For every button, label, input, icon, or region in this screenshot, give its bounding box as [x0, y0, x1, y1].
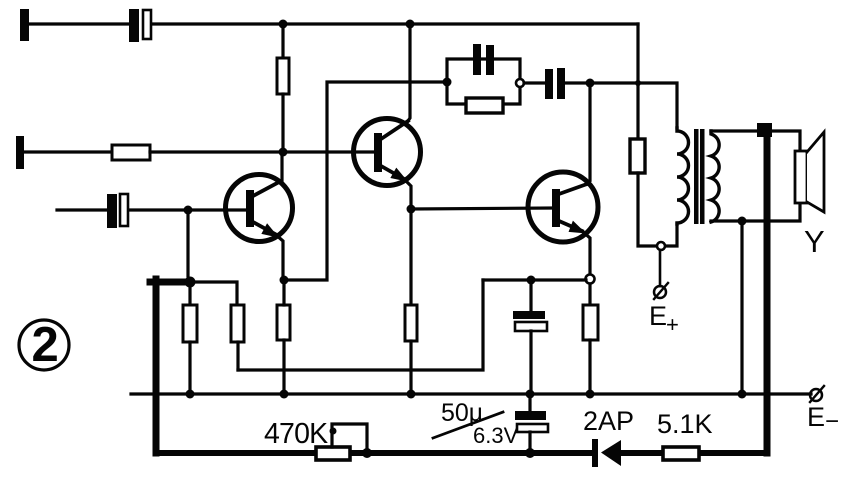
wire secondary bottom to speaker: [711, 203, 800, 221]
input terminal J2: [16, 136, 24, 169]
svg-text:+: +: [666, 312, 679, 337]
node top rail / R3 collector branch: [279, 20, 288, 29]
svg-text:E: E: [807, 402, 825, 432]
resistor R7: [583, 305, 598, 340]
node B2: [279, 148, 288, 157]
wire C6 top lead: [528, 396, 531, 411]
wire top supply rail: [152, 22, 638, 25]
wire R5 bottom lead: [188, 342, 191, 394]
wire C5 top lead: [529, 280, 532, 311]
wire emitter bus: [483, 278, 586, 281]
wire Q2 emitter to Q3 base: [411, 208, 553, 209]
node Q3 emitter (open): [586, 275, 595, 284]
resistor R10 470K: [316, 447, 350, 460]
wire R1 bottom to emitter bus: [236, 342, 239, 370]
wire Q2 collector up to rail: [408, 24, 410, 121]
speaker Y: [795, 132, 824, 212]
wire J2 to R2: [24, 150, 112, 153]
resistor R11 5.1K: [663, 447, 699, 460]
terminal E-: [810, 386, 824, 402]
label E-: [807, 402, 839, 435]
resistor R8: [466, 98, 503, 113]
capacitor C6: [515, 411, 548, 432]
wire Q3 emitter down: [582, 231, 590, 275]
figure number circle 2: [19, 318, 69, 372]
resistor R3: [277, 58, 289, 94]
wire node C to transformer primary: [590, 83, 677, 128]
resistor R4: [277, 305, 290, 340]
resistor R9: [630, 139, 645, 173]
transformer T1 core: [694, 129, 705, 224]
wire bold line speaker to bottom rail: [764, 132, 771, 453]
capacitor C3: [473, 44, 494, 75]
wire node to C4: [524, 81, 545, 84]
wire node down to R6: [409, 209, 412, 305]
wire R3 bottom to node B2: [281, 94, 284, 152]
capacitor C5: [513, 311, 547, 331]
wire RC network frame: [447, 59, 520, 104]
capacitor C2: [107, 194, 128, 228]
node R4 ground: [280, 390, 289, 399]
wire Q1 emitter feedback up branch: [283, 82, 447, 280]
node feedback junction: [185, 277, 196, 288]
wire C6 bottom lead: [528, 432, 531, 451]
resistor R5: [183, 305, 197, 342]
wire J1 to C1: [29, 22, 130, 25]
resistor R1: [231, 305, 244, 342]
wire R9 bottom to primary bottom: [638, 173, 677, 246]
capacitor C4: [545, 68, 565, 99]
wire R6 to ground rail: [409, 341, 412, 394]
transformer T1 primary winding: [677, 128, 689, 224]
transistor Q1: [226, 175, 293, 242]
wire R7 to ground rail: [588, 340, 591, 394]
node rail crossing: [635, 80, 641, 86]
wire emitter bus left corner down: [238, 280, 483, 370]
node E+ tap (open): [657, 242, 665, 250]
node RC network left: [443, 78, 452, 87]
node RC network right (open): [516, 79, 524, 87]
node secondary bottom: [738, 217, 747, 226]
label 50u 6.3V: [441, 399, 519, 448]
node loop right on rail: [362, 448, 372, 458]
node Q1 base / R5 divider: [184, 206, 193, 215]
node loop left: [330, 428, 337, 435]
wire R4 leads: [282, 280, 285, 394]
wire E+ lead: [659, 250, 662, 286]
wire R5 top lead: [188, 287, 191, 305]
resistor R6: [405, 305, 417, 341]
wire input 3 lead: [57, 208, 107, 211]
label E+: [649, 301, 679, 337]
wire secondary top to speaker: [711, 131, 800, 151]
wire Q2 emitter down: [404, 179, 411, 209]
node Q2 emitter: [407, 205, 416, 214]
wire node to R1 divider: [196, 282, 237, 305]
svg-text:5.1K: 5.1K: [657, 409, 713, 439]
diode D1: [592, 439, 621, 467]
wire rail corner down to R9: [636, 24, 639, 139]
capacitor C1: [129, 9, 151, 42]
wire C2 to Q1 base: [129, 208, 246, 211]
wire thick feedback vertical: [153, 279, 160, 453]
node ground R6: [407, 390, 416, 399]
wire node to R7: [588, 284, 591, 305]
node C5 top: [527, 276, 536, 285]
terminal E+: [654, 283, 668, 299]
svg-text:E: E: [649, 301, 667, 331]
wire R2 to node B2: [150, 150, 283, 153]
svg-text:6.3V: 6.3V: [473, 423, 519, 448]
wire R10 bypass loop: [332, 424, 367, 450]
wire Q1 emitter down: [275, 234, 283, 280]
wire C4 to node C: [565, 81, 590, 84]
divider slash: [433, 412, 503, 438]
transistor Q2: [354, 119, 421, 186]
node ground rail right: [738, 390, 747, 399]
wire node B2 down to Q1 collector: [280, 152, 283, 181]
svg-text:Y: Y: [804, 224, 825, 259]
wire Q3 collector up to node C: [587, 83, 590, 184]
wire ground rail: [131, 392, 811, 395]
input terminal J1: [20, 9, 29, 41]
node C6 rail: [525, 448, 535, 458]
node C: [586, 79, 595, 88]
transistor Q3: [528, 172, 598, 242]
svg-text:2: 2: [32, 318, 59, 372]
wire thick feedback stub: [150, 279, 184, 286]
wire R3 top lead: [281, 24, 284, 58]
node Q1 emitter / R4: [280, 276, 289, 285]
node ground R7: [586, 390, 595, 399]
node top rail / Q2 collector: [406, 20, 415, 29]
wire node B2 to Q2 base: [283, 150, 374, 153]
wire node down toward thick feedback node: [186, 210, 189, 276]
wire thick bottom rail: [156, 450, 766, 456]
wire node down to ground rail: [740, 221, 743, 394]
svg-text:2AP: 2AP: [583, 406, 634, 436]
node ground R5: [186, 390, 195, 399]
wire C5 bottom lead: [529, 331, 532, 394]
node ground C5: [526, 390, 535, 399]
svg-text:−: −: [825, 408, 839, 435]
node square junction: [757, 123, 772, 137]
transformer T1 secondary winding: [711, 131, 719, 222]
resistor R2: [112, 145, 150, 160]
